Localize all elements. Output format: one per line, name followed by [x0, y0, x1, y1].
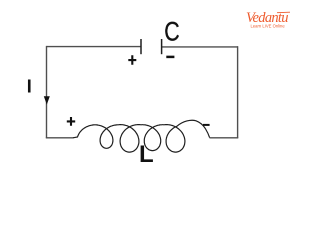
svg-text:I: I — [27, 77, 32, 97]
wire: left vertical segment — [46, 46, 48, 138]
inductor plus polarity label — [67, 117, 75, 126]
wire: top-right segment from capacitor right plate to top-right corner — [162, 46, 238, 48]
inductor L1 coil — [73, 120, 210, 152]
wire: top-left segment from top-left corner to capacitor left plate — [47, 46, 141, 48]
Vedantu logo wordmark — [246, 10, 290, 26]
svg-text:C: C — [164, 17, 179, 47]
wire: bottom-left segment from corner to inductor start — [46, 137, 74, 139]
inductor minus polarity label — [203, 124, 210, 126]
wire: bottom-right segment from inductor end to bottom-right corner — [210, 137, 239, 139]
wire: right vertical segment — [237, 46, 239, 138]
current direction arrowhead on left wire — [44, 96, 50, 104]
svg-text:L: L — [139, 141, 154, 168]
capacitor C1 left plate — [140, 39, 142, 54]
capacitor plus polarity label — [128, 55, 136, 64]
capacitor minus polarity label — [166, 56, 174, 59]
capacitor C1 right plate — [161, 39, 163, 54]
svg-text:Learn LIVE Online: Learn LIVE Online — [251, 24, 286, 29]
